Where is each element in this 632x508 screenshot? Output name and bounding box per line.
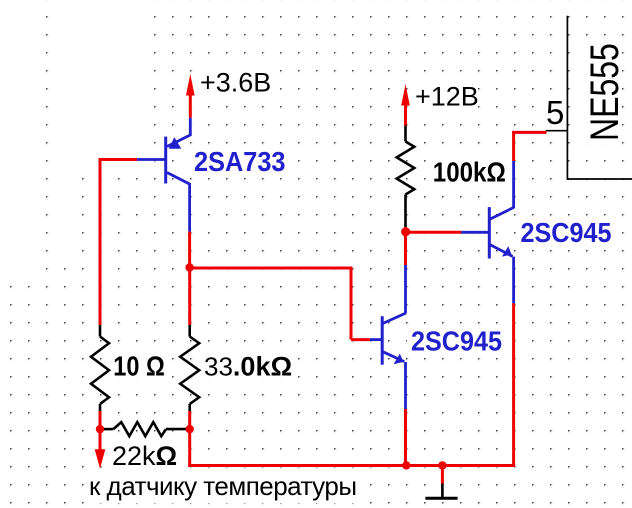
svg-text:+3.6В: +3.6В: [200, 68, 271, 98]
svg-text:+12В: +12В: [415, 82, 479, 112]
svg-text:к датчику температуры: к датчику температуры: [89, 471, 357, 501]
svg-text:NE555: NE555: [582, 43, 627, 141]
svg-text:22kΩ: 22kΩ: [112, 441, 177, 471]
svg-text:2SA733: 2SA733: [194, 146, 286, 177]
svg-text:33.0kΩ: 33.0kΩ: [204, 352, 292, 382]
svg-text:100kΩ: 100kΩ: [433, 157, 506, 188]
svg-text:5: 5: [546, 94, 564, 131]
svg-text:2SC945: 2SC945: [521, 217, 612, 248]
svg-text:10 Ω: 10 Ω: [113, 351, 165, 382]
svg-text:2SC945: 2SC945: [411, 326, 502, 357]
